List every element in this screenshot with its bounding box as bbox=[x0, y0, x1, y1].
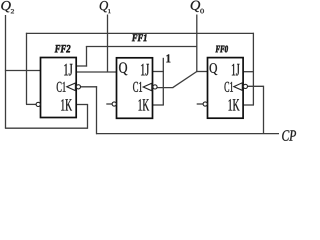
wire FF0 Q pin bbox=[196, 71, 207, 73]
wire FF1 1J pin bbox=[153, 71, 164, 73]
wire FF1 Q-bar stub bbox=[106, 103, 112, 105]
inversion bubble FF1 C1 bbox=[153, 85, 157, 89]
clock edge triangle U-FF1 bbox=[143, 83, 152, 91]
text pin FF0 1J bbox=[232, 64, 240, 76]
clock edge triangle U-FF0 bbox=[234, 83, 243, 91]
wire FF1 1K pin bbox=[153, 104, 164, 106]
text label Q1 sub bbox=[108, 9, 110, 13]
wire FF2 upper J pin bbox=[76, 65, 87, 67]
flip-flop FF2 box bbox=[41, 58, 77, 118]
wire Q2 stem bbox=[5, 15, 7, 128]
inversion bubble FF2 C1 bbox=[76, 85, 80, 89]
text label const1 bbox=[166, 54, 170, 62]
wire CP riser FF2 bbox=[96, 86, 98, 134]
inversion bubble FF1 Q-bar bbox=[112, 102, 116, 106]
text pin FF1 1J bbox=[141, 64, 149, 76]
wire bottom feedback Q2 to K2 bbox=[5, 127, 88, 129]
wire FF1 C1 pin bbox=[157, 87, 173, 89]
wire K2 riser bbox=[87, 105, 89, 129]
text label Q2 Q bbox=[1, 1, 10, 12]
inversion bubble FF2 Q-bar bbox=[36, 102, 40, 106]
text label FF1 bbox=[132, 34, 147, 41]
text label CP bbox=[282, 130, 296, 141]
clock edge triangle U-FF2 bbox=[67, 83, 76, 91]
wire FF2 Q pin bbox=[5, 70, 41, 72]
text pin FF2 C1 bbox=[57, 82, 66, 92]
text pin FF2 1J bbox=[64, 64, 72, 76]
text pin FF1 Q bbox=[119, 62, 127, 75]
wire FF0 JK riser bbox=[252, 33, 254, 105]
wire Q0 to J2 bbox=[86, 46, 197, 48]
flip-flop FF1 box bbox=[117, 58, 153, 119]
text pin FF1 C1 bbox=[133, 82, 142, 92]
text pin FF2 1K bbox=[61, 99, 72, 110]
text label FF2 bbox=[55, 45, 71, 52]
wire FF0 1K pin bbox=[243, 104, 254, 106]
wire FF0 C1 pin bbox=[247, 85, 263, 87]
wire CP rail bbox=[96, 133, 279, 135]
wire FF0 Q-bar stub bbox=[197, 103, 204, 105]
text label Q2 sub bbox=[11, 9, 14, 13]
text pin FF1 1K bbox=[139, 99, 150, 110]
wire FF2 C1 pin bbox=[80, 86, 97, 88]
wire top feedback rail bbox=[26, 32, 254, 34]
flip-flop FF0 box bbox=[208, 58, 244, 119]
wire Q0 stem bbox=[196, 15, 198, 73]
wire to Q-bar FF2 bubble bbox=[26, 103, 36, 105]
text label FF0 bbox=[216, 46, 228, 53]
text pin FF0 C1 bbox=[225, 82, 234, 92]
text label Q0 sub bbox=[200, 9, 204, 14]
wire logic-1 tie FF1 bbox=[162, 58, 164, 105]
wire CP riser FF0 bbox=[263, 86, 265, 134]
text pin FF0 1K bbox=[229, 99, 240, 110]
text label Q0 Q bbox=[191, 1, 200, 12]
wire FF2 1K pin bbox=[76, 104, 88, 106]
inversion bubble FF0 Q-bar bbox=[203, 102, 207, 106]
wire Q1 stem bbox=[107, 15, 109, 73]
text label Q1 Q bbox=[100, 1, 108, 12]
wire Q0 to FF1 clock diagonal bbox=[173, 72, 197, 88]
wire FF1 Q to FF2 J bbox=[76, 71, 116, 73]
text pin FF0 Q bbox=[210, 63, 218, 75]
wire FF0 1J pin bbox=[243, 71, 253, 73]
wire J2 riser bbox=[86, 46, 88, 67]
wire feedback riser from Q-bar FF2 bbox=[26, 33, 28, 105]
inversion bubble FF0 C1 bbox=[243, 84, 247, 88]
